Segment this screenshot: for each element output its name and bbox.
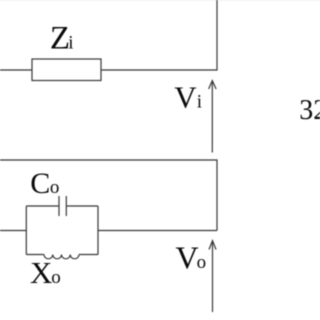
- svg-text:V: V: [174, 80, 197, 115]
- svg-text:32: 32: [299, 95, 320, 126]
- svg-text:V: V: [176, 240, 199, 276]
- svg-text:Z: Z: [50, 21, 70, 57]
- svg-text:C: C: [30, 167, 50, 200]
- svg-text:o: o: [51, 267, 61, 288]
- svg-text:o: o: [50, 177, 60, 198]
- svg-text:i: i: [68, 33, 73, 54]
- svg-text:i: i: [197, 92, 202, 113]
- svg-text:X: X: [30, 255, 52, 290]
- svg-text:o: o: [197, 252, 207, 273]
